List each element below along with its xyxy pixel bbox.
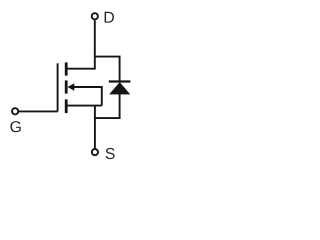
wire gate lead [19,110,58,112]
transistor Q1 body contact bar [65,80,68,93]
wire drain: D circle down to drain bar lead [66,20,95,68]
wire source lead [66,105,102,107]
transistor Q1 body arrow [68,83,75,90]
diode D1 cathode bar [109,80,131,82]
gate line of Q1 [57,63,59,111]
label D [105,12,114,23]
wire diode anode to source node [95,94,120,118]
label S [106,148,115,159]
diode D1 anode triangle [110,83,130,95]
terminal S circle [92,149,98,155]
terminal G circle [12,108,18,114]
wire source down to S circle [94,106,96,149]
wire drain to diode cathode [95,57,120,81]
transistor Q1 source contact bar [65,99,68,113]
wire body lead to source lead [74,87,102,106]
label G [10,121,20,132]
transistor Q1 drain contact bar [65,62,68,75]
terminal D circle [92,13,98,19]
